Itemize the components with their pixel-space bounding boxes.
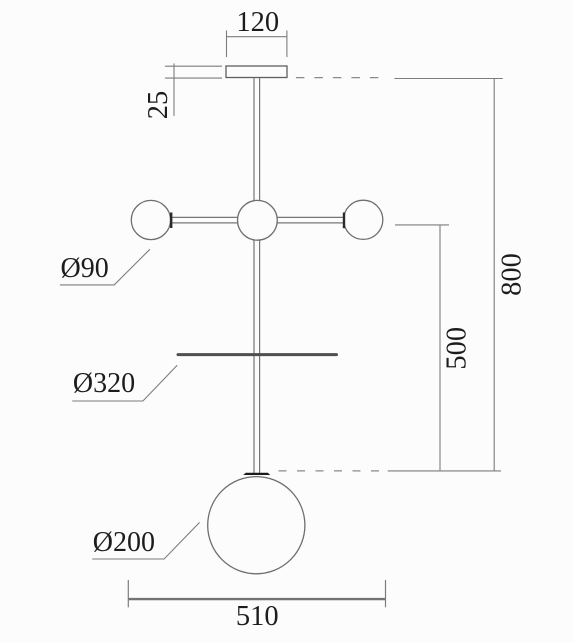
- dimension 25: vertical line: [173, 63, 175, 116]
- dashed reference line from sphere top: [279, 470, 384, 472]
- label O90 leader line: [60, 249, 150, 285]
- dimension 25: top extension line: [165, 65, 222, 67]
- svg-text:Ø90: Ø90: [61, 253, 109, 284]
- svg-text:800: 800: [497, 253, 528, 296]
- svg-text:Ø320: Ø320: [73, 368, 135, 399]
- svg-text:25: 25: [143, 91, 174, 120]
- svg-text:510: 510: [236, 601, 279, 632]
- lower stem (double line): [254, 239, 260, 473]
- left arm (double line): [171, 217, 238, 223]
- dimension 25: bottom extension line: [165, 77, 222, 79]
- right arm end cap: [343, 213, 345, 229]
- glass sphere (O200): [208, 477, 305, 574]
- ceiling plate: [226, 66, 287, 78]
- svg-text:120: 120: [236, 7, 279, 38]
- shelf disc (O320): [178, 353, 337, 356]
- label O320 leader line: [72, 365, 177, 401]
- center bulb circle: [238, 200, 278, 240]
- svg-text:500: 500: [442, 327, 473, 370]
- sphere top cap: [243, 473, 270, 475]
- dimension 120: line: [227, 36, 287, 38]
- svg-text:Ø200: Ø200: [93, 527, 155, 558]
- dimension 510: line: [128, 598, 385, 600]
- dimension 800: vertical line: [493, 79, 495, 471]
- dimension 510: right tick: [385, 580, 387, 607]
- dashed reference line from plate: [296, 77, 388, 79]
- dimension 120: right tick: [286, 30, 288, 57]
- dimension 120: left tick: [226, 30, 228, 57]
- dimension 500: vertical line: [439, 225, 441, 471]
- dimension 800: top extension line: [394, 78, 502, 80]
- dimension 500: top extension line: [395, 224, 449, 226]
- right bulb circle: [344, 200, 383, 239]
- right arm (double line): [277, 217, 344, 223]
- left bulb circle: [131, 200, 170, 239]
- dimension 510: left tick: [127, 580, 129, 607]
- label O200 leader line: [92, 522, 199, 559]
- left arm end cap: [170, 213, 172, 229]
- upper stem (double line): [254, 78, 260, 203]
- bottom extension line under 500/800: [388, 470, 501, 472]
